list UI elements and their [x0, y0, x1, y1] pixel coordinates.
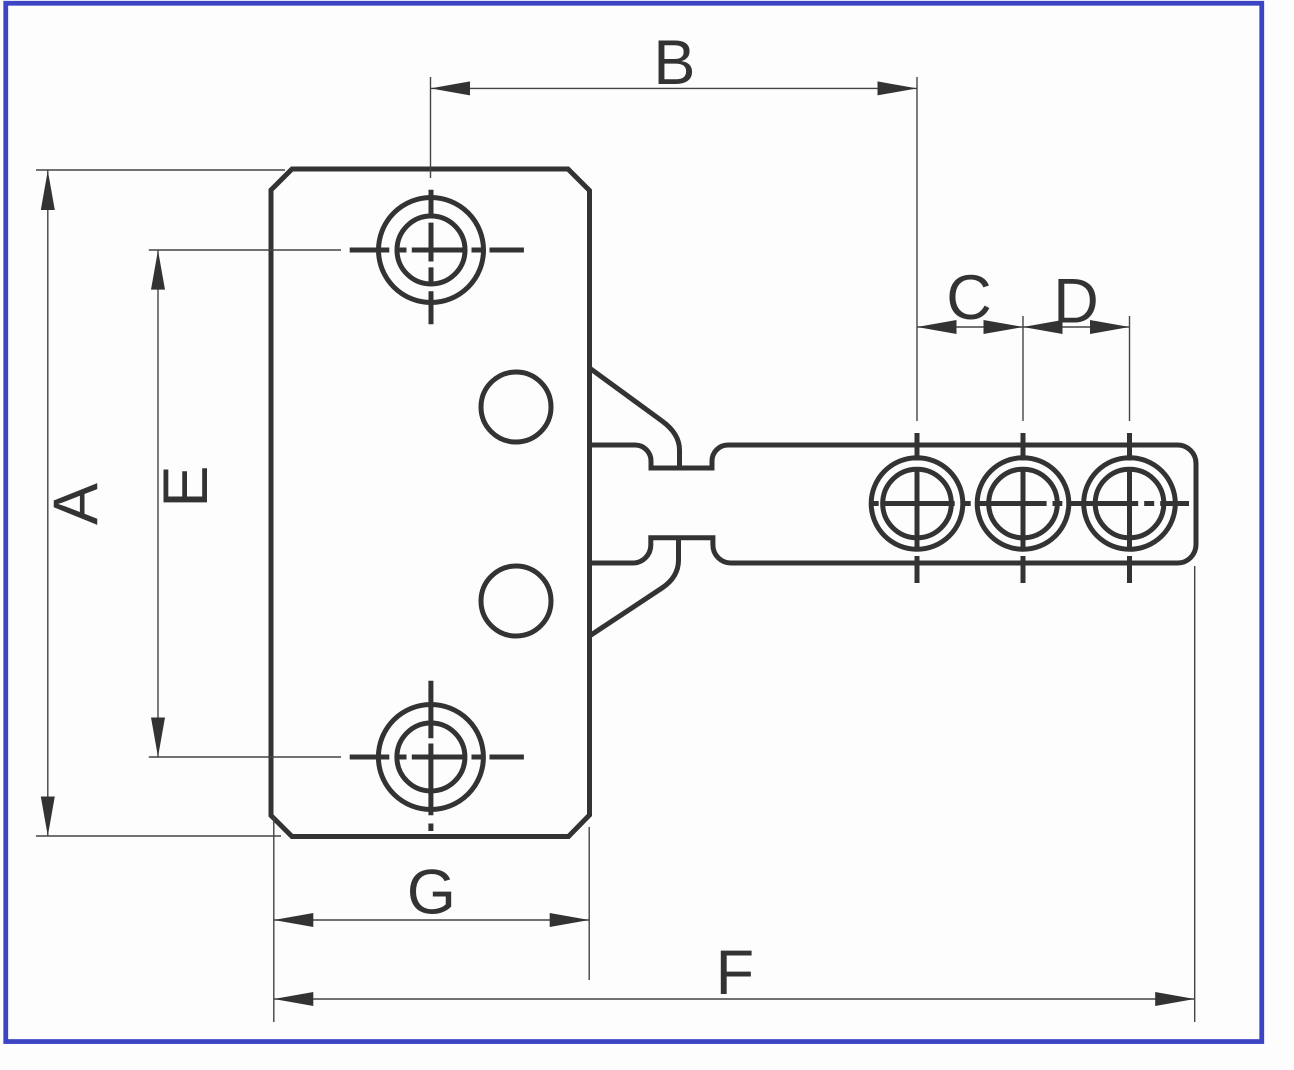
arrow E down — [151, 718, 165, 758]
svg-text:G: G — [407, 858, 456, 928]
svg-text:F: F — [716, 938, 754, 1008]
arm hole 2 inner circle — [989, 469, 1058, 538]
top mounting hole inner circle — [397, 216, 465, 284]
top mounting hole horizontal centerline — [350, 248, 524, 253]
dim G line — [274, 919, 589, 921]
bottom mounting hole vertical centerline — [428, 681, 433, 831]
arrow D right — [1090, 320, 1130, 334]
arrow B right — [878, 81, 918, 95]
arrow E up — [151, 250, 165, 289]
dim B line — [431, 87, 918, 89]
arm holes shared horizontal centerline — [871, 501, 1189, 506]
svg-text:C: C — [946, 263, 992, 333]
plain circle upper — [481, 372, 551, 442]
arm hole 1 outer circle — [871, 458, 963, 550]
arrow C right — [984, 320, 1024, 334]
base plate outline — [271, 169, 590, 837]
dim F extension right — [1194, 566, 1196, 1022]
dim D line — [1023, 326, 1130, 328]
dim D extension right — [1129, 316, 1131, 421]
dim C/D shared extension — [1022, 316, 1024, 421]
dim G extension right — [588, 827, 590, 980]
arrow A down — [41, 797, 55, 837]
arrow A up — [41, 171, 55, 211]
bottom mounting hole inner circle — [397, 723, 465, 791]
svg-text:A: A — [41, 483, 111, 525]
dim A line — [47, 170, 49, 836]
svg-text:B: B — [653, 28, 695, 98]
bottom mounting hole horizontal centerline — [350, 755, 524, 760]
arm hole 1 vertical centerline — [915, 433, 920, 583]
dim B/C shared extension — [916, 77, 918, 421]
dim C line — [917, 326, 1023, 328]
plain circle lower — [481, 566, 551, 636]
dim A extension bottom — [36, 835, 281, 837]
upper gusset — [590, 368, 680, 468]
arm hole 2 vertical centerline — [1021, 433, 1026, 583]
arrow F left — [274, 992, 314, 1006]
arrow F right — [1155, 992, 1195, 1006]
arm hole 1 inner circle — [883, 469, 952, 538]
svg-text:D: D — [1053, 267, 1099, 337]
arm hole 3 inner circle — [1095, 469, 1164, 538]
dim E extension top — [149, 249, 341, 251]
dim E line — [157, 250, 159, 757]
bottom mounting hole counterbore outer circle — [378, 705, 483, 810]
top mounting hole vertical centerline — [429, 190, 434, 325]
dim A extension top — [36, 169, 285, 171]
dim G/F shared extension left — [273, 817, 275, 1022]
arm hole 3 outer circle — [1084, 458, 1176, 550]
dim E extension bottom — [149, 756, 341, 758]
arm hole 2 outer circle — [977, 458, 1069, 550]
dim F line — [274, 998, 1195, 1000]
arrow C left — [917, 320, 957, 334]
arrow G left — [274, 913, 314, 927]
arrow G right — [550, 913, 590, 927]
svg-text:E: E — [151, 465, 221, 507]
dim B extension left — [430, 77, 432, 178]
top mounting hole counterbore outer circle — [379, 198, 484, 303]
lower gusset — [590, 537, 679, 636]
arm hole 3 vertical centerline — [1127, 433, 1132, 583]
clamp arm outline — [590, 445, 1197, 563]
arrow D left — [1023, 320, 1063, 334]
arrow B left — [431, 81, 471, 95]
